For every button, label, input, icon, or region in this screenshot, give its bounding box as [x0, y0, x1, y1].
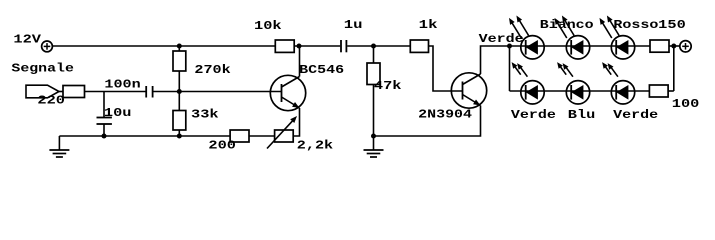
wire trimmer to Q1 emitter — [293, 108, 299, 136]
svg-text:220: 220 — [37, 94, 65, 108]
resistor R3 220 — [63, 86, 85, 98]
junction dot 47k top — [371, 44, 376, 49]
svg-text:10u: 10u — [104, 106, 132, 120]
ground GND1 — [49, 136, 69, 157]
wire 150 to output terminal — [669, 45, 680, 47]
resistor R8 150 — [650, 40, 669, 52]
ground GND2 — [364, 136, 384, 157]
wire bottom-left rail — [59, 135, 230, 137]
wire 1u to 1k — [347, 45, 410, 47]
wire bottom LED row — [510, 90, 650, 92]
svg-text:10k: 10k — [254, 19, 282, 33]
junction dot LED rows split — [507, 44, 512, 49]
svg-text:100: 100 — [672, 97, 700, 111]
junction dot ground node — [371, 134, 376, 139]
svg-text:200: 200 — [208, 139, 236, 153]
resistor R2 33k — [173, 111, 186, 131]
wire tag to 220 — [59, 91, 63, 93]
wire 47k top lead — [373, 46, 375, 63]
wire 33k bottom lead — [178, 130, 180, 136]
resistor R5 10k — [275, 40, 294, 52]
wire 33k top lead — [178, 92, 180, 111]
resistor R1 270k — [173, 51, 186, 71]
junction dot 270k top — [177, 44, 182, 49]
svg-text:Bianco: Bianco — [540, 18, 594, 32]
svg-text:Blu: Blu — [568, 108, 596, 122]
svg-text:2,2k: 2,2k — [297, 139, 333, 153]
svg-text:Verde: Verde — [479, 32, 524, 46]
svg-text:BC546: BC546 — [299, 63, 344, 77]
resistor R9 100 — [649, 85, 668, 97]
wire 200 to trimmer — [249, 135, 275, 137]
wire top rail 12V to 10k — [52, 45, 275, 47]
signal input tag Segnale — [26, 85, 59, 98]
junction dot Q1 collector node — [297, 44, 302, 49]
svg-text:33k: 33k — [191, 108, 219, 122]
wire ground rail to Q2 emitter — [374, 106, 481, 137]
resistor R6 47k — [367, 63, 380, 85]
svg-text:Segnale: Segnale — [11, 62, 74, 76]
wire top LED row — [510, 45, 651, 47]
junction dot 33k bottom — [177, 134, 182, 139]
wire 220 to C1 100n — [85, 91, 146, 93]
svg-text:1k: 1k — [419, 18, 438, 32]
terminal + output — [680, 41, 691, 52]
svg-text:Verde: Verde — [511, 108, 556, 122]
svg-text:1u: 1u — [344, 18, 363, 32]
svg-text:Verde: Verde — [613, 108, 658, 122]
capacitor C3 1u — [341, 40, 346, 52]
wire Q2 collector riser — [481, 46, 510, 74]
svg-text:Rosso: Rosso — [613, 18, 658, 32]
resistor R7 1k — [410, 40, 428, 52]
wire 270k top lead — [178, 46, 180, 51]
svg-text:12V: 12V — [13, 33, 42, 47]
trimmer P1 arrow — [267, 116, 297, 149]
svg-text:100n: 100n — [104, 78, 140, 92]
wire 100 to riser — [668, 90, 674, 92]
wire 47k bottom lead — [373, 85, 375, 137]
wire 270k bottom lead — [178, 71, 180, 92]
wire 100n to base node — [153, 91, 281, 93]
LED D2 Bianco — [555, 16, 590, 60]
capacitor C1 100n — [146, 86, 152, 98]
terminal +12V supply — [42, 41, 53, 52]
svg-text:47k: 47k — [374, 79, 402, 93]
LED D6 Verde (bottom right) — [602, 62, 635, 104]
transistor Q2 2N3904 — [451, 73, 486, 108]
junction dot output node — [671, 44, 676, 49]
LED D3 Rosso — [600, 16, 635, 60]
junction dot 10u bottom — [102, 134, 107, 139]
wire 10k to 1u — [294, 45, 340, 47]
trimmer P1 2,2k body — [275, 130, 294, 142]
wire 1k to Q2 base — [429, 46, 463, 91]
LED D4 Verde (bottom) — [512, 62, 545, 104]
LED D1 Verde (top) — [509, 16, 544, 60]
capacitor C2 10u — [97, 92, 112, 137]
transistor Q1 BC546 — [270, 75, 305, 110]
wire Q1 collector riser — [299, 46, 301, 77]
junction dot base node — [177, 89, 182, 94]
svg-text:150: 150 — [658, 18, 686, 32]
svg-text:270k: 270k — [194, 63, 230, 77]
svg-text:2N3904: 2N3904 — [418, 108, 472, 122]
LED D5 Blu — [557, 62, 590, 104]
resistor R4 200 — [230, 130, 249, 142]
wire output riser — [673, 46, 675, 91]
wire LED rows vertical — [509, 46, 511, 91]
